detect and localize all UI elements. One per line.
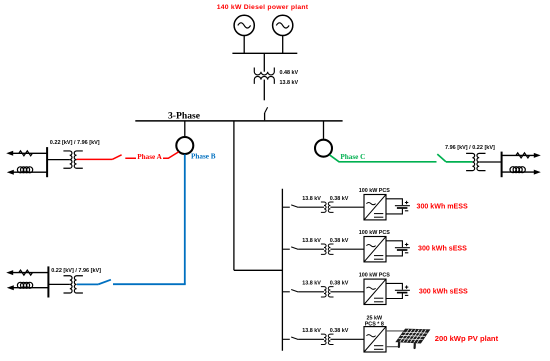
svg-text:3-Phase: 3-Phase: [168, 110, 201, 121]
svg-text:0.22 [kV] / 7.96 [kV]: 0.22 [kV] / 7.96 [kV]: [51, 268, 101, 274]
svg-text:140 kW Diesel power plant: 140 kW Diesel power plant: [217, 4, 309, 11]
svg-text:0.38 kV: 0.38 kV: [330, 328, 349, 334]
svg-text:200 kWp PV plant: 200 kWp PV plant: [435, 334, 499, 343]
svg-text:0.22 [kV] / 7.96 [kV]: 0.22 [kV] / 7.96 [kV]: [50, 140, 100, 146]
svg-text:100 kW PCS: 100 kW PCS: [359, 188, 391, 194]
svg-text:13.8 kV: 13.8 kV: [302, 238, 321, 244]
svg-text:Phase A: Phase A: [137, 153, 162, 161]
svg-text:0.38 kV: 0.38 kV: [330, 196, 349, 202]
svg-text:100 kW PCS: 100 kW PCS: [359, 273, 391, 279]
svg-text:13.8 kV: 13.8 kV: [302, 281, 321, 287]
svg-text:0.38 kV: 0.38 kV: [330, 238, 349, 244]
svg-text:100 kW PCS: 100 kW PCS: [359, 230, 391, 236]
svg-text:13.8 kV: 13.8 kV: [302, 196, 321, 202]
svg-text:13.8 kV: 13.8 kV: [280, 80, 299, 86]
svg-text:7.96 [kV] / 0.22 [kV]: 7.96 [kV] / 0.22 [kV]: [445, 145, 495, 151]
svg-text:13.8 kV: 13.8 kV: [302, 328, 321, 334]
svg-text:25 kW: 25 kW: [367, 316, 383, 322]
svg-text:300 kWh sESS: 300 kWh sESS: [418, 245, 467, 253]
svg-text:300 kWh sESS: 300 kWh sESS: [419, 287, 468, 295]
svg-text:300 kWh mESS: 300 kWh mESS: [417, 203, 469, 211]
svg-text:Phase B: Phase B: [191, 153, 216, 161]
svg-text:PCS * 8: PCS * 8: [365, 322, 384, 328]
svg-text:0.38 kV: 0.38 kV: [330, 281, 349, 287]
svg-text:0.48 kV: 0.48 kV: [280, 70, 299, 76]
svg-text:Phase C: Phase C: [340, 153, 365, 161]
